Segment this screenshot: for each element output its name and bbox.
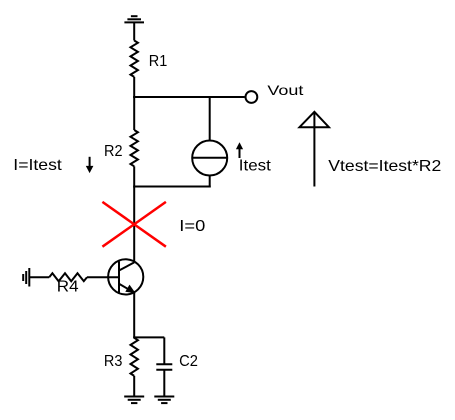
wire C2 top xyxy=(163,337,165,364)
resistor R4 xyxy=(49,273,87,281)
svg-text:Itest: Itest xyxy=(239,158,272,175)
ground (under C2) xyxy=(154,397,174,404)
wire R3 to ground xyxy=(133,376,135,397)
ground (left, at R4) xyxy=(23,268,29,287)
svg-text:C2: C2 xyxy=(179,353,198,370)
arrow I=Itest direction (down) xyxy=(86,157,94,173)
capacitor C2 xyxy=(156,364,172,369)
wire R1 to output node xyxy=(133,77,135,98)
wire node to R2 top xyxy=(133,96,135,130)
wire current source bottom xyxy=(209,176,211,188)
wire base to R4 xyxy=(87,276,119,278)
ground (under R3) xyxy=(124,397,144,404)
resistor R2 xyxy=(131,130,138,166)
wire bottom node to C2 branch xyxy=(133,336,164,338)
svg-text:Vout: Vout xyxy=(267,82,303,98)
red X open-circuit mark xyxy=(102,202,165,247)
transistor Q1 xyxy=(108,259,143,294)
svg-text:R4: R4 xyxy=(57,279,79,296)
terminal Vout xyxy=(246,91,258,103)
arrow Itest current direction xyxy=(236,142,243,158)
current source Itest xyxy=(192,141,228,176)
ground (top, above R1) xyxy=(124,16,144,22)
resistor R3 xyxy=(131,338,138,376)
resistor R1 xyxy=(131,41,138,77)
wire emitter to bottom node xyxy=(133,293,135,339)
svg-text:R1: R1 xyxy=(149,53,168,70)
wire C2 to ground xyxy=(163,370,165,397)
transistor emitter arrowhead xyxy=(125,285,135,294)
wire loop node to transistor collector xyxy=(133,187,135,263)
svg-text:I=0: I=0 xyxy=(179,218,205,235)
svg-text:R2: R2 xyxy=(104,143,123,160)
wire R2 bottom to loop node xyxy=(133,166,135,187)
wire node to current source top xyxy=(209,96,211,141)
svg-text:I=Itest: I=Itest xyxy=(13,157,62,174)
wire loop bottom xyxy=(133,186,211,188)
wire output node to Vout terminal xyxy=(133,96,244,98)
wire top ground to R1 xyxy=(133,22,135,40)
wire left ground to R4 xyxy=(29,276,49,278)
svg-text:Vtest=Itest*R2: Vtest=Itest*R2 xyxy=(328,158,441,175)
arrow Vtest direction (up, open head) xyxy=(300,112,329,187)
svg-text:R3: R3 xyxy=(104,353,123,370)
